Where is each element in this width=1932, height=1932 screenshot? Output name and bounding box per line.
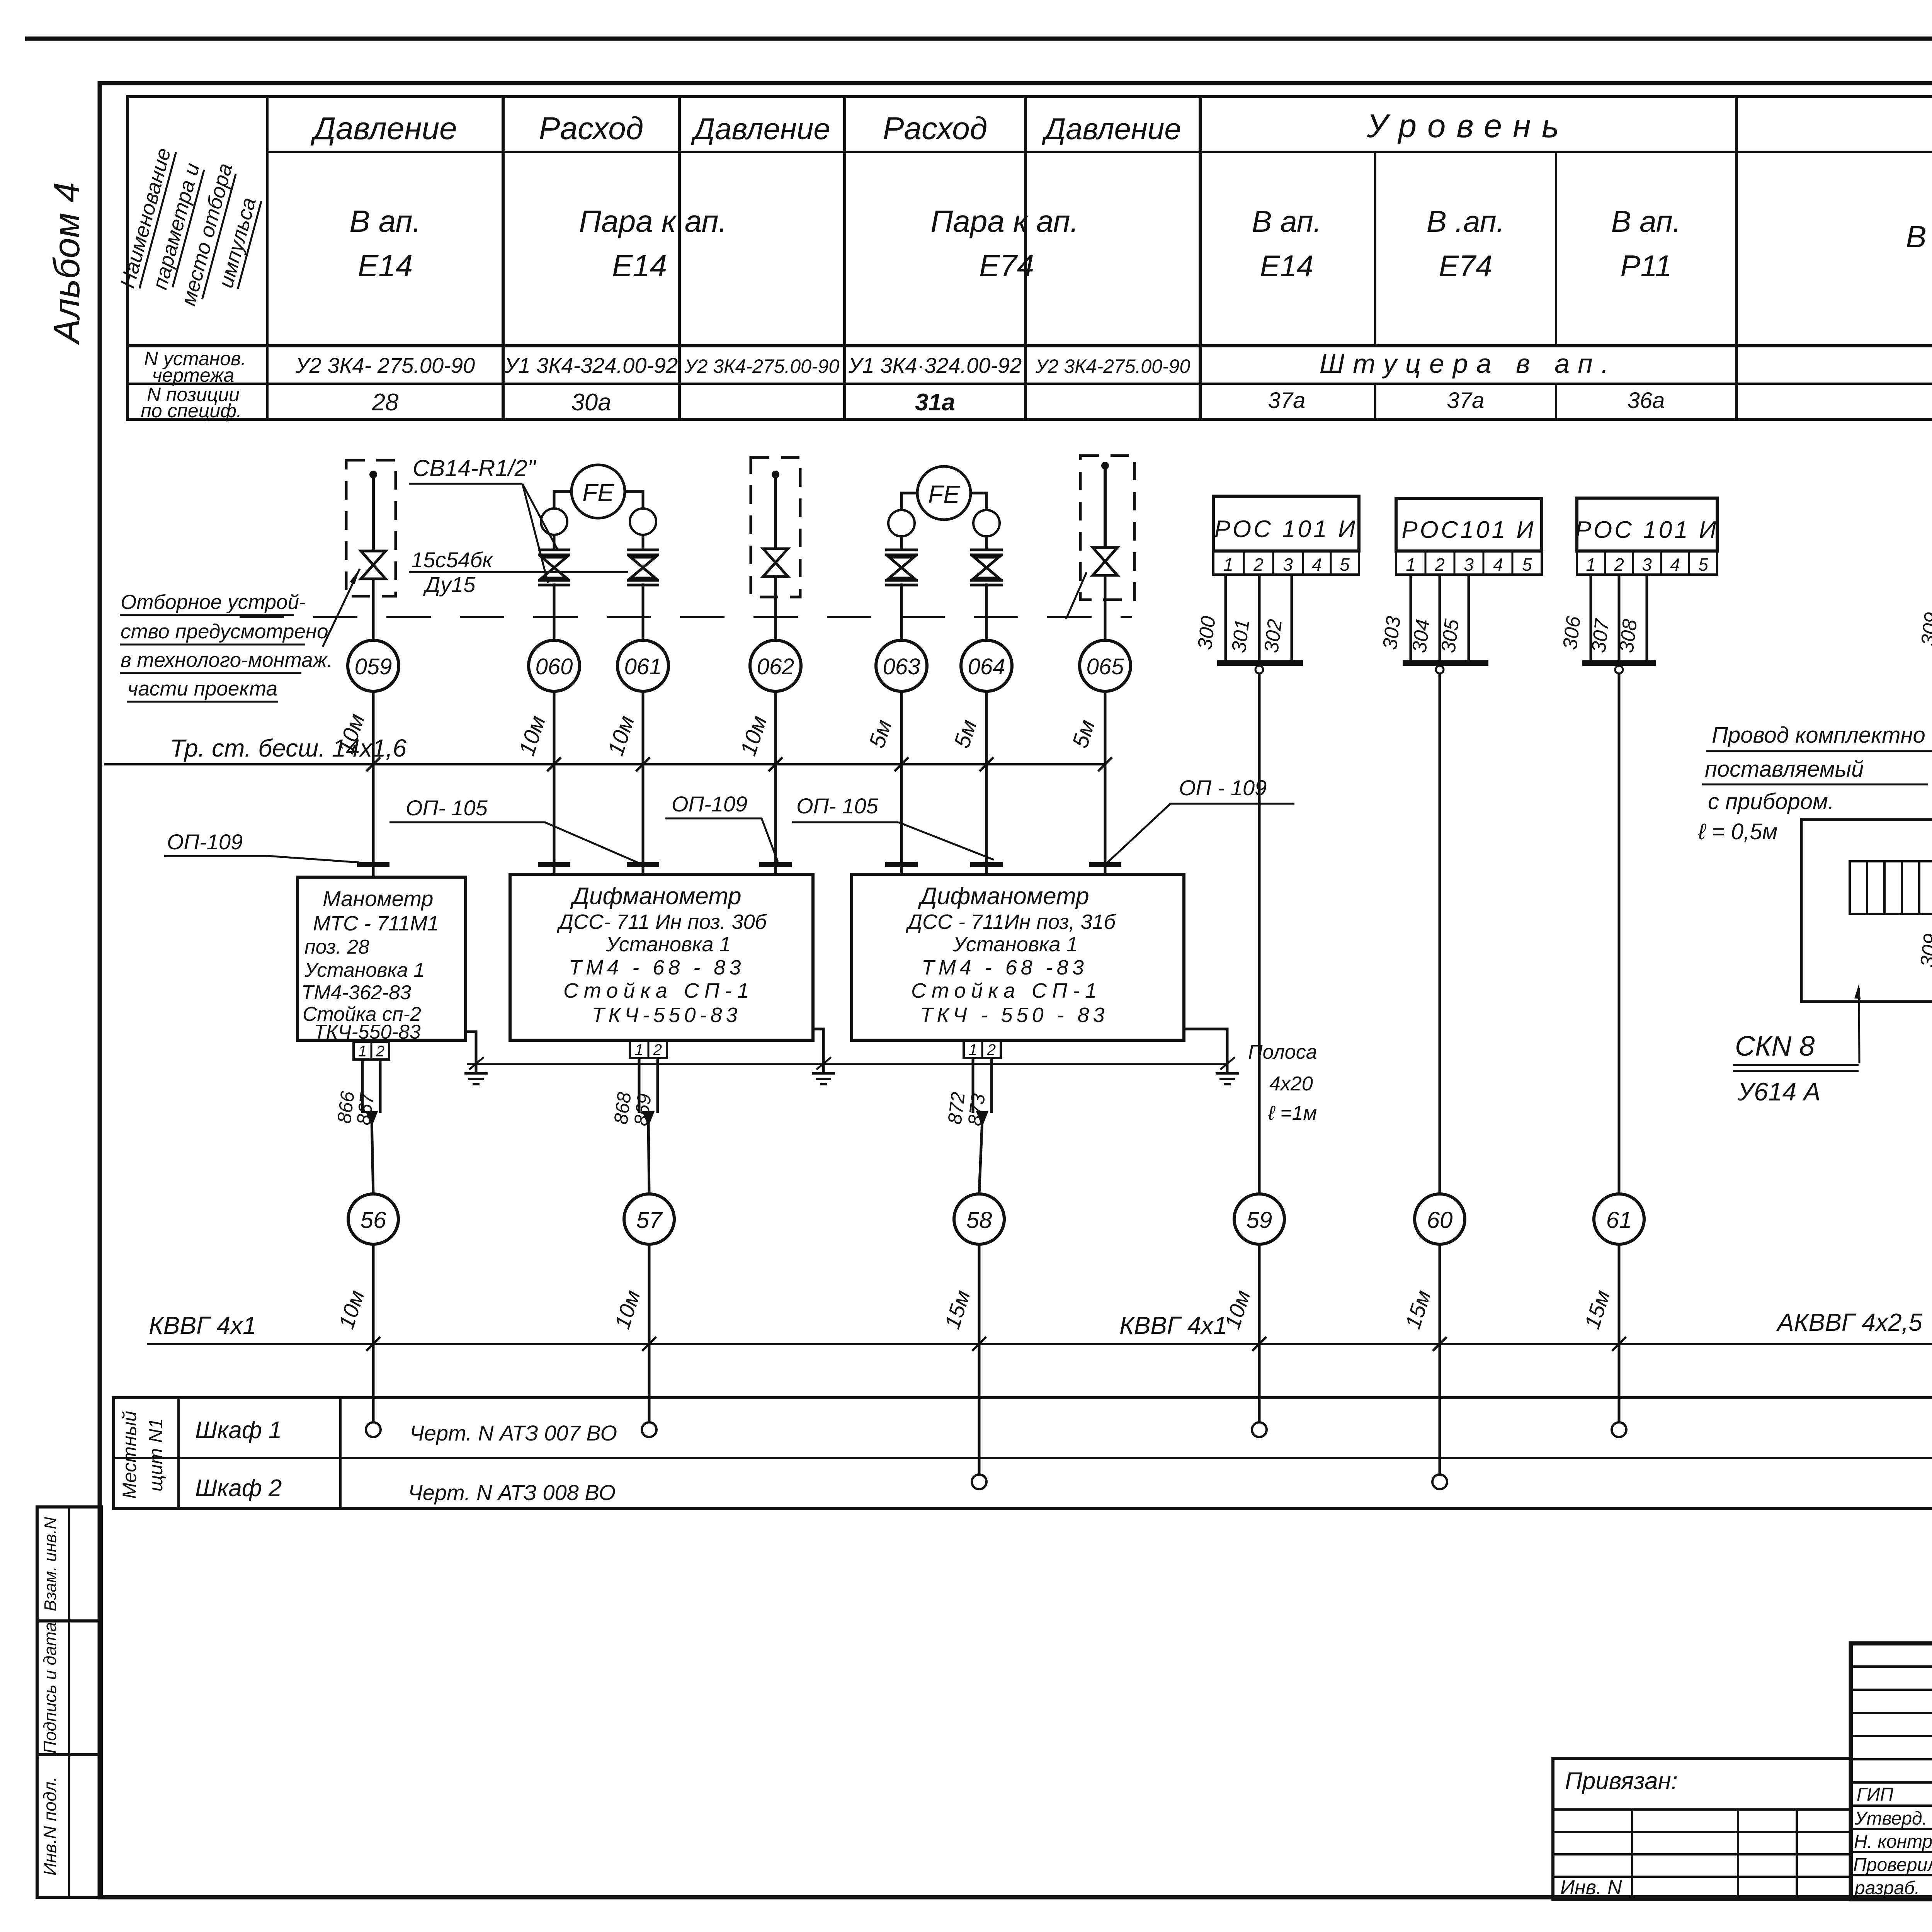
svg-text:065: 065 <box>1087 654 1124 679</box>
valve G <box>1093 548 1117 575</box>
svg-text:КВВГ 4х1: КВВГ 4х1 <box>149 1311 257 1339</box>
svg-text:В ап.: В ап. <box>1611 204 1681 238</box>
svg-text:61: 61 <box>1606 1207 1632 1233</box>
cable run line <box>147 1335 1932 1352</box>
instrument box: Манометр МТС-711М1 <box>298 877 466 1043</box>
svg-text:4: 4 <box>1312 554 1322 575</box>
svg-text:ОП- 105: ОП- 105 <box>406 796 488 820</box>
valve stack E <box>885 550 918 585</box>
label ОП-105 (lines E,F) <box>792 794 994 860</box>
label ОП-109 (line G) <box>1107 776 1294 863</box>
svg-text:Утверд.: Утверд. <box>1854 1808 1927 1829</box>
svg-text:2: 2 <box>1614 554 1624 575</box>
svg-text:МТС - 711М1: МТС - 711М1 <box>313 912 439 935</box>
svg-text:Штуцера в ап.: Штуцера в ап. <box>1320 349 1617 379</box>
svg-text:Уровень: Уровень <box>1366 108 1570 145</box>
instrument circle 059 <box>348 640 399 691</box>
cell: В ап. Е74 (уровень) <box>1427 204 1505 283</box>
svg-text:разраб.: разраб. <box>1854 1878 1920 1898</box>
svg-text:ГИП: ГИП <box>1857 1784 1893 1805</box>
valve D <box>763 549 788 577</box>
terminal block 1|2 under Дифманометр 2 <box>964 1040 1001 1058</box>
svg-text:5: 5 <box>1698 554 1708 575</box>
svg-text:869: 869 <box>630 1092 655 1127</box>
svg-text:Установка 1: Установка 1 <box>952 933 1078 956</box>
label ОП-109 (line D) <box>665 792 778 862</box>
cable circle 56 <box>348 1194 398 1244</box>
svg-text:ТКЧ - 550 - 83: ТКЧ - 550 - 83 <box>920 1003 1108 1027</box>
svg-text:5: 5 <box>1522 554 1532 575</box>
svg-text:060: 060 <box>536 654 573 679</box>
svg-text:В ап. Х9: В ап. Х9 <box>1906 219 1932 254</box>
svg-text:37а: 37а <box>1447 388 1485 413</box>
svg-text:Шкаф 1: Шкаф 1 <box>195 1417 282 1444</box>
instrument box: Дифманометр ДСС-711Ин поз.31б <box>852 874 1184 1040</box>
cell: Пара к ап. Е74 <box>930 204 1079 283</box>
svg-text:поставляемый: поставляемый <box>1705 757 1864 782</box>
svg-text:В ап.: В ап. <box>1252 204 1322 238</box>
label ОП-105 (lines B,C) <box>389 796 638 862</box>
instrument circle 060 <box>529 640 580 691</box>
note: Провод комплектно поставляемый с прибором <box>1698 723 1932 844</box>
svg-text:15с54бк: 15с54бк <box>411 548 493 572</box>
svg-text:части проекта: части проекта <box>128 677 277 700</box>
cell: В ап. Р11 (уровень) <box>1611 204 1681 283</box>
row values: N позиции <box>372 388 1932 416</box>
svg-text:Е14: Е14 <box>358 248 413 283</box>
binding table Привязан <box>1553 1759 1851 1899</box>
svg-text:3: 3 <box>1642 554 1652 575</box>
row values: N установ. чертежа <box>295 344 1932 379</box>
leader to dashed box G <box>1066 572 1087 619</box>
svg-text:308: 308 <box>1615 618 1641 654</box>
table first column rotated heading <box>116 145 268 316</box>
svg-text:Дифманометр: Дифманометр <box>918 883 1089 910</box>
svg-text:Расход: Расход <box>539 111 644 146</box>
svg-text:Давление: Давление <box>690 112 830 146</box>
svg-text:с прибором.: с прибором. <box>1708 789 1834 814</box>
svg-text:В ап.: В ап. <box>349 204 421 238</box>
junction bars on lines A..G <box>357 862 1121 867</box>
cable circle 60 <box>1415 1194 1465 1244</box>
svg-text:1: 1 <box>1406 554 1416 575</box>
svg-text:Ду15: Ду15 <box>423 572 476 597</box>
svg-text:4: 4 <box>1493 554 1503 575</box>
svg-text:Установка 1: Установка 1 <box>304 959 425 981</box>
svg-text:У614 А: У614 А <box>1737 1077 1821 1106</box>
title block left grid <box>1851 1643 1932 1899</box>
svg-text:4х20: 4х20 <box>1269 1073 1313 1095</box>
svg-text:36а: 36а <box>1628 388 1665 413</box>
svg-text:поз. 28: поз. 28 <box>304 936 369 958</box>
label Полоса 4х20 l=1м (bus) <box>1248 1041 1317 1124</box>
svg-text:Черт. N АТЗ 007 ВО: Черт. N АТЗ 007 ВО <box>410 1421 617 1445</box>
controller block РОС101И no.1 <box>1213 496 1359 575</box>
svg-text:Местный: Местный <box>119 1411 140 1499</box>
svg-text:ТМ4-362-83: ТМ4-362-83 <box>301 981 411 1004</box>
instrument circle 062 <box>750 640 801 691</box>
svg-text:В .ап.: В .ап. <box>1427 204 1505 238</box>
svg-text:У2 3К4-275.00-90: У2 3К4-275.00-90 <box>1035 355 1190 377</box>
svg-text:Пара к ап.: Пара к ап. <box>579 204 727 238</box>
label ОП-109 (line A) <box>164 830 359 862</box>
svg-text:56: 56 <box>361 1207 386 1233</box>
local panel table (Местный щит N1) <box>114 1398 1932 1509</box>
svg-text:60: 60 <box>1427 1207 1453 1233</box>
svg-text:Давление: Давление <box>1041 112 1181 146</box>
svg-text:У1 3К4-324.00-92: У1 3К4-324.00-92 <box>504 353 678 378</box>
cell: В ап. Е14 <box>349 204 421 283</box>
svg-text:Пара к ап.: Пара к ап. <box>930 204 1079 238</box>
outer top border line <box>25 37 1932 41</box>
wires 866/867 <box>333 1060 380 1194</box>
svg-text:063: 063 <box>883 654 920 679</box>
label СВ14-R1/2" with leaders <box>409 455 558 583</box>
svg-text:Привязан:: Привязан: <box>1565 1768 1678 1794</box>
connector X9 wires 309/310/311 <box>1917 544 1932 808</box>
title block outer <box>1851 1643 1932 1899</box>
cable length labels (lower row) <box>334 1285 1932 1332</box>
svg-text:062: 062 <box>757 654 794 679</box>
cable circle 58 <box>954 1194 1004 1244</box>
svg-text:2: 2 <box>376 1043 384 1060</box>
row label: N установ. чертежа <box>144 348 246 386</box>
svg-text:3: 3 <box>1464 554 1474 575</box>
controller block РОС101И no.2 <box>1396 498 1542 575</box>
svg-text:28: 28 <box>372 389 399 416</box>
svg-text:1: 1 <box>1586 554 1596 575</box>
svg-text:1: 1 <box>635 1041 643 1058</box>
ground connection of box 2 <box>812 1029 835 1084</box>
dashed box around valve A <box>346 460 396 596</box>
cabinet connection terminals row 1 <box>366 1422 1932 1437</box>
left stamp box: Инв.N подл. <box>37 1755 101 1897</box>
svg-text:РОС101 И: РОС101 И <box>1401 517 1536 543</box>
svg-text:305: 305 <box>1437 617 1463 654</box>
instrument circle 065 <box>1080 640 1131 691</box>
impulse line G <box>1101 462 1109 874</box>
svg-text:307: 307 <box>1587 617 1614 654</box>
svg-text:ТКЧ-550-83: ТКЧ-550-83 <box>314 1021 421 1043</box>
boundary dashed line (отборные устройства) <box>240 616 1132 618</box>
svg-text:Стойка СП-1: Стойка СП-1 <box>911 979 1102 1002</box>
svg-text:1: 1 <box>1223 554 1233 575</box>
svg-text:302: 302 <box>1260 618 1286 654</box>
svg-text:У2 3К4-275.00-90: У2 3К4-275.00-90 <box>684 355 840 377</box>
left stamp box: Подпись и дата <box>37 1621 101 1755</box>
svg-text:РОС 101 И: РОС 101 И <box>1575 517 1719 543</box>
svg-text:Манометр: Манометр <box>323 886 433 911</box>
svg-text:Давление: Давление <box>310 111 457 146</box>
ground connection of box 3 / bus end <box>1184 1029 1239 1084</box>
svg-text:У2 3К4- 275.00-90: У2 3К4- 275.00-90 <box>295 353 475 378</box>
svg-text:Расход: Расход <box>883 111 988 146</box>
svg-text:3: 3 <box>1283 554 1293 575</box>
svg-text:2: 2 <box>1434 554 1445 575</box>
svg-text:Установка 1: Установка 1 <box>605 933 731 956</box>
svg-text:Проверил: Проверил <box>1853 1855 1932 1875</box>
svg-text:Дифманометр: Дифманометр <box>570 883 741 910</box>
resistor box assembly СК N8 <box>1801 808 1932 1194</box>
svg-text:Инв. N: Инв. N <box>1560 1876 1622 1899</box>
svg-text:59: 59 <box>1247 1207 1272 1233</box>
svg-text:Н. контр.: Н. контр. <box>1854 1832 1932 1852</box>
svg-text:58: 58 <box>966 1207 992 1233</box>
svg-text:1: 1 <box>358 1043 367 1060</box>
note text: Отборное устройство предусмотрено... <box>120 569 360 702</box>
svg-text:Черт. N АТЗ 008 ВО: Черт. N АТЗ 008 ВО <box>408 1480 616 1505</box>
svg-text:303: 303 <box>1379 615 1405 651</box>
svg-text:СВ14-R1/2": СВ14-R1/2" <box>413 455 537 481</box>
svg-text:ℓ =1м: ℓ =1м <box>1268 1102 1317 1124</box>
svg-text:ОП-109: ОП-109 <box>167 830 243 854</box>
svg-text:301: 301 <box>1228 618 1254 654</box>
svg-text:2: 2 <box>987 1041 996 1058</box>
valve stack F <box>970 550 1003 585</box>
valve stack C <box>627 550 659 585</box>
flow element FE1 <box>541 465 656 535</box>
svg-text:059: 059 <box>355 654 392 679</box>
svg-text:Тр. ст. бесш. 14х1,6: Тр. ст. бесш. 14х1,6 <box>170 734 406 762</box>
ground bus (Полоса 4х20) <box>467 1063 1227 1065</box>
svg-text:31а: 31а <box>915 389 955 416</box>
cable circle 61 <box>1594 1194 1644 1244</box>
svg-text:Инв.N подл.: Инв.N подл. <box>40 1777 60 1876</box>
svg-text:ОП - 109: ОП - 109 <box>1179 776 1267 800</box>
svg-text:ТМ4 - 68 - 83: ТМ4 - 68 - 83 <box>569 956 745 979</box>
svg-text:Подпись и дата: Подпись и дата <box>40 1622 60 1753</box>
svg-text:Е14: Е14 <box>1260 249 1314 283</box>
valve stack B <box>538 550 570 585</box>
impulse line F <box>985 510 988 874</box>
impulse line A <box>369 471 377 877</box>
svg-text:304: 304 <box>1408 618 1434 654</box>
instrument circle 063 <box>876 640 927 691</box>
impulse line B <box>553 509 556 874</box>
svg-text:873: 873 <box>964 1092 989 1127</box>
svg-text:ДСС - 711Ин поз, 31б: ДСС - 711Ин поз, 31б <box>906 910 1116 934</box>
tube length labels 10м/5м (upper row) <box>333 711 1100 759</box>
row label: N позиции по специф. <box>141 384 242 422</box>
svg-text:ДСС- 711 Ин поз. 30б: ДСС- 711 Ин поз. 30б <box>557 910 767 934</box>
wires 872/873 <box>944 1058 992 1194</box>
title block signature labels <box>1853 1784 1932 1898</box>
wires 303/304/305 <box>1379 575 1488 1194</box>
svg-text:Отборное устрой-: Отборное устрой- <box>121 591 306 614</box>
svg-text:1: 1 <box>969 1041 977 1058</box>
svg-text:КВВГ 4х1: КВВГ 4х1 <box>1119 1311 1227 1339</box>
instrument box: Дифманометр ДСС-711Ин поз.30б <box>510 874 813 1040</box>
impulse line D <box>772 471 779 874</box>
svg-text:Р11: Р11 <box>1621 249 1672 283</box>
cable lines from circles down to cabinets <box>373 1244 1932 1475</box>
svg-text:щит N1: щит N1 <box>145 1418 167 1492</box>
svg-text:2: 2 <box>1253 554 1264 575</box>
svg-text:2: 2 <box>653 1041 662 1058</box>
svg-text:Провод комплектно: Провод комплектно <box>1712 723 1925 748</box>
svg-text:по специф.: по специф. <box>141 400 242 422</box>
svg-text:Альбом 4: Альбом 4 <box>46 182 87 345</box>
svg-text:ОП- 105: ОП- 105 <box>796 794 879 818</box>
svg-text:57: 57 <box>636 1207 663 1233</box>
cell: В ап. Е14 (уровень) <box>1252 204 1322 283</box>
label СК N8 / У614 А <box>1733 984 1861 1106</box>
svg-text:4: 4 <box>1670 554 1680 575</box>
svg-text:Шкаф 2: Шкаф 2 <box>195 1475 282 1502</box>
svg-text:5: 5 <box>1340 554 1350 575</box>
svg-text:АКВВГ 4х2,5: АКВВГ 4х2,5 <box>1776 1308 1922 1336</box>
terminal block 1|2 under Дифманометр 1 <box>630 1040 667 1058</box>
svg-text:37а: 37а <box>1268 388 1306 413</box>
svg-text:СКN 8: СКN 8 <box>1735 1031 1815 1062</box>
svg-text:в технолого-монтаж.: в технолого-монтаж. <box>121 649 333 672</box>
cell: Пара к ап. Е14 <box>579 204 727 283</box>
label 15с54бк Ду15 <box>409 548 628 597</box>
svg-text:ОП-109: ОП-109 <box>672 792 747 816</box>
svg-text:FE: FE <box>582 479 614 507</box>
wires 868/869 <box>610 1058 658 1194</box>
svg-text:061: 061 <box>624 654 662 679</box>
valve A <box>361 551 386 579</box>
instrument circle 064 <box>961 640 1012 691</box>
svg-text:Взам. инв.N: Взам. инв.N <box>41 1517 60 1611</box>
svg-text:РОС 101 И: РОС 101 И <box>1214 516 1358 543</box>
svg-text:У1 3К4·324.00-92: У1 3К4·324.00-92 <box>848 353 1022 378</box>
impulse line C <box>642 509 645 874</box>
dashed box around valve G <box>1080 456 1134 600</box>
impulse line E <box>900 510 903 874</box>
wires 300/301/302 <box>1194 575 1303 1194</box>
dashed box around valve D <box>751 457 800 597</box>
svg-text:FE: FE <box>928 480 960 508</box>
left stamp box: Взам. инв.N <box>37 1507 101 1621</box>
svg-text:чертежа: чертежа <box>152 364 235 386</box>
svg-text:Е74: Е74 <box>979 248 1034 283</box>
svg-text:867: 867 <box>352 1091 378 1126</box>
svg-text:ТМ4 - 68 -83: ТМ4 - 68 -83 <box>922 956 1088 979</box>
controller block РОС101И no.3 <box>1575 498 1719 575</box>
terminal block 1|2 under Манометр <box>354 1042 389 1060</box>
svg-text:ство предусмотрено: ство предусмотрено <box>121 620 328 643</box>
rotated label Местный щит N1 <box>119 1411 167 1499</box>
steel tube line Тр. ст. бесш. 14х1,6 <box>104 734 1112 771</box>
svg-text:Стойка СП-1: Стойка СП-1 <box>563 979 754 1002</box>
header table frame <box>128 97 1932 419</box>
instrument circle 061 <box>617 640 668 691</box>
svg-text:ТКЧ-550-83: ТКЧ-550-83 <box>592 1003 741 1027</box>
svg-text:064: 064 <box>968 654 1005 679</box>
cable circle 57 <box>624 1194 674 1244</box>
svg-text:306: 306 <box>1559 615 1585 651</box>
svg-text:Е14: Е14 <box>612 248 667 283</box>
svg-text:300: 300 <box>1194 615 1220 651</box>
svg-text:Е74: Е74 <box>1439 249 1493 283</box>
cable circle 59 <box>1234 1194 1284 1244</box>
svg-text:30а: 30а <box>571 389 611 416</box>
wires 306/307/308 <box>1559 575 1656 1194</box>
ground connection of box 1 <box>464 1032 488 1084</box>
flow element FE2 <box>888 466 1000 536</box>
svg-text:ℓ = 0,5м: ℓ = 0,5м <box>1698 819 1777 844</box>
cabinet connection terminals row 2 <box>972 1475 1932 1489</box>
